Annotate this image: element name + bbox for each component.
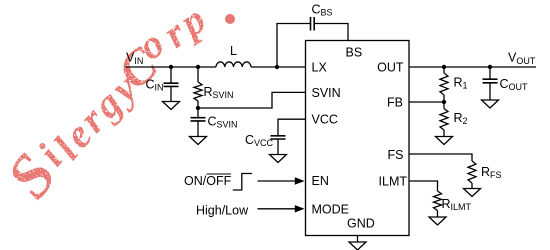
wire FS net xyxy=(409,154,472,161)
wire ILMT net xyxy=(409,181,438,191)
pin label BS xyxy=(346,46,363,60)
svg-text:ILMT: ILMT xyxy=(379,175,408,189)
svg-text:LX: LX xyxy=(312,61,328,75)
pin label FS xyxy=(388,148,404,162)
capacitor CBS xyxy=(311,3,333,31)
wire CBS left leg xyxy=(277,24,310,68)
junction dot RSVIN tap xyxy=(196,65,200,69)
svg-text:VOUT: VOUT xyxy=(508,51,536,67)
svg-text:BS: BS xyxy=(346,46,363,60)
svg-text:RFS: RFS xyxy=(481,165,502,180)
signal label High/Low xyxy=(196,204,249,218)
pin label MODE xyxy=(312,203,350,217)
watermark "Silergy Corp." xyxy=(0,0,308,210)
svg-text:COUT: COUT xyxy=(500,77,529,92)
pin label OUT xyxy=(377,61,404,75)
junction dot R1/R2 xyxy=(442,100,446,104)
svg-text:CSVIN: CSVIN xyxy=(208,115,238,130)
step waveform symbol xyxy=(233,174,252,191)
ground below R2 xyxy=(436,137,453,145)
svg-text:L: L xyxy=(230,44,237,58)
signal label ON/OFF xyxy=(184,174,232,188)
pin label LX xyxy=(312,61,328,75)
svg-text:VCC: VCC xyxy=(312,113,338,127)
pin label EN xyxy=(312,174,329,188)
svg-text:CVCC: CVCC xyxy=(245,133,274,148)
resistor R1 xyxy=(440,67,468,102)
ground below CIN xyxy=(163,102,180,110)
capacitor CVCC xyxy=(245,133,286,155)
svg-text:High/Low: High/Low xyxy=(196,204,249,218)
ground below GND pin xyxy=(349,242,366,250)
wire CBS to BS pin xyxy=(314,24,348,41)
wire inductor to LX pin xyxy=(251,66,306,68)
svg-text:R1: R1 xyxy=(454,76,468,91)
ground below CVCC xyxy=(270,155,287,163)
resistor RILMT xyxy=(434,191,472,217)
resistor R2 xyxy=(440,102,468,137)
pin label SVIN xyxy=(312,86,341,100)
svg-text:FB: FB xyxy=(387,96,403,110)
wire FB net xyxy=(409,101,444,103)
capacitor COUT xyxy=(483,67,529,100)
svg-text:OUT: OUT xyxy=(377,61,404,75)
svg-text:MODE: MODE xyxy=(312,203,350,217)
node VIN label xyxy=(126,51,143,67)
ground below CSVIN xyxy=(190,137,207,145)
svg-text:RSVIN: RSVIN xyxy=(204,85,234,100)
node VOUT label xyxy=(508,51,536,67)
svg-text:EN: EN xyxy=(312,174,329,188)
junction dot R1 tap xyxy=(442,65,446,69)
wire GND pin xyxy=(357,236,359,243)
svg-text:FS: FS xyxy=(388,148,404,162)
resistor RSVIN xyxy=(194,67,234,108)
pin label FB xyxy=(387,96,403,110)
arrow into EN xyxy=(258,177,305,184)
capacitor CSVIN xyxy=(191,108,238,137)
junction dot COUT tap xyxy=(488,65,492,69)
svg-text:GND: GND xyxy=(347,217,375,231)
wire OUT rail xyxy=(409,66,536,68)
resistor RFS xyxy=(468,161,502,189)
ground below COUT xyxy=(482,100,499,108)
svg-text:R2: R2 xyxy=(454,111,468,126)
svg-text:RILMT: RILMT xyxy=(442,197,472,212)
pin label GND xyxy=(347,217,375,231)
junction dot RSVIN/CSVIN xyxy=(196,106,200,110)
inductor L xyxy=(216,44,251,67)
arrow into MODE xyxy=(258,205,305,212)
junction dot CIN tap xyxy=(169,65,173,69)
svg-text:CBS: CBS xyxy=(312,3,333,18)
pin label VCC xyxy=(312,113,338,127)
svg-text:ON/OFF: ON/OFF xyxy=(184,174,232,188)
junction dot CBS tap xyxy=(275,65,279,69)
ground below RILMT xyxy=(429,217,446,225)
wire VIN rail xyxy=(126,66,217,68)
svg-text:SVIN: SVIN xyxy=(312,86,341,100)
pin label ILMT xyxy=(379,175,408,189)
IC U1 body xyxy=(306,41,410,236)
wire SVIN net xyxy=(198,92,306,108)
ground below RFS xyxy=(464,189,481,197)
capacitor CIN xyxy=(146,67,179,102)
wire VCC net xyxy=(278,119,306,136)
